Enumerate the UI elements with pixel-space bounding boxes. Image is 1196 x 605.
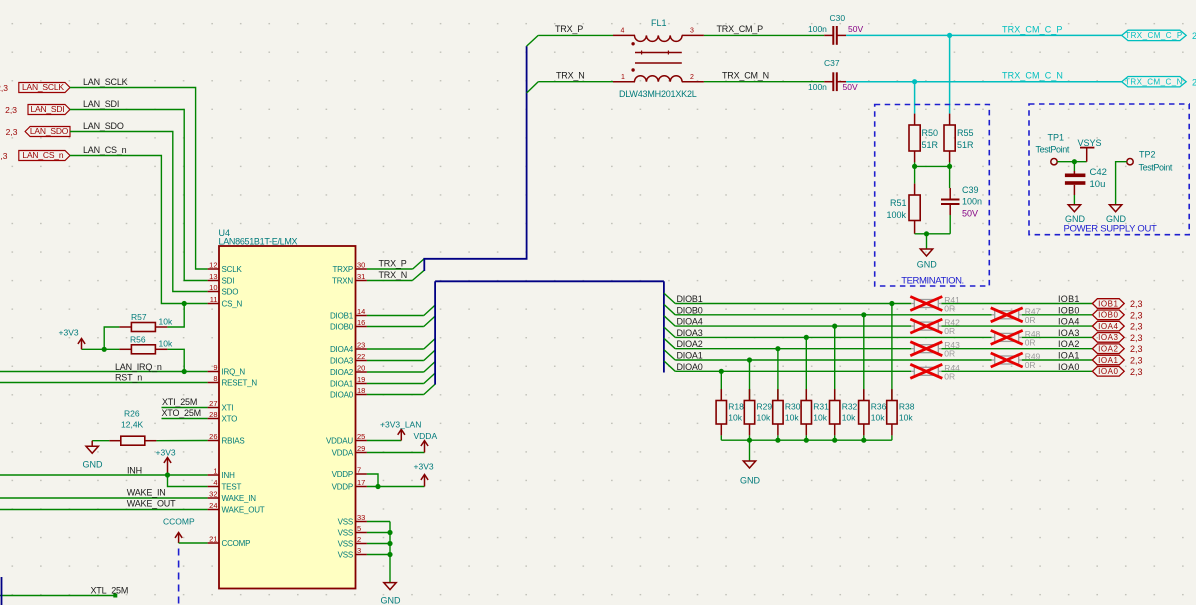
svg-text:CCOMP: CCOMP: [163, 517, 195, 527]
svg-text:TP2: TP2: [1139, 150, 1156, 160]
svg-text:DIOA3: DIOA3: [677, 328, 703, 338]
svg-text:28: 28: [209, 410, 217, 419]
svg-text:2,3: 2,3: [0, 151, 8, 161]
svg-text:+3V3_LAN: +3V3_LAN: [380, 420, 421, 430]
svg-text:WAKE_OUT: WAKE_OUT: [127, 498, 176, 508]
svg-text:TRX_N: TRX_N: [379, 270, 408, 280]
svg-text:GND: GND: [381, 596, 402, 605]
svg-text:XTO_25M: XTO_25M: [162, 408, 201, 418]
svg-text:2: 2: [690, 74, 694, 81]
svg-text:51R: 51R: [922, 140, 939, 150]
svg-text:VDDP: VDDP: [332, 483, 353, 492]
svg-text:WAKE_IN: WAKE_IN: [127, 487, 166, 497]
svg-text:DLW43MH201XK2L: DLW43MH201XK2L: [619, 89, 697, 99]
svg-text:2,3: 2,3: [1130, 333, 1143, 343]
svg-text:0R: 0R: [944, 371, 955, 381]
svg-text:TRXP: TRXP: [332, 265, 353, 274]
svg-text:10k: 10k: [785, 413, 799, 423]
svg-text:11: 11: [210, 295, 218, 304]
svg-text:VSYS: VSYS: [1078, 138, 1102, 148]
svg-text:TRXN: TRXN: [332, 277, 353, 286]
svg-text:DIOA1: DIOA1: [677, 351, 703, 361]
svg-text:TERMINATION.: TERMINATION.: [901, 276, 964, 287]
svg-text:TestPoint: TestPoint: [1036, 145, 1070, 155]
svg-text:IRQ_N: IRQ_N: [222, 368, 246, 377]
svg-text:10k: 10k: [757, 413, 771, 423]
svg-text:IOA4: IOA4: [1058, 317, 1080, 327]
svg-text:DIOB0: DIOB0: [330, 323, 354, 332]
svg-text:3: 3: [690, 28, 694, 35]
svg-text:VSS: VSS: [338, 551, 353, 560]
svg-text:INH: INH: [222, 471, 236, 480]
svg-text:IOA2: IOA2: [1058, 339, 1080, 349]
svg-text:9: 9: [213, 363, 217, 372]
svg-text:DIOB1: DIOB1: [677, 294, 703, 304]
svg-text:0R: 0R: [944, 304, 955, 314]
svg-text:RBIAS: RBIAS: [222, 437, 245, 446]
svg-text:TP1: TP1: [1048, 133, 1065, 143]
svg-text:51R: 51R: [957, 140, 974, 150]
svg-text:GND: GND: [1065, 214, 1086, 224]
svg-text:IOA4: IOA4: [1098, 322, 1118, 331]
svg-text:1: 1: [621, 74, 625, 81]
svg-text:IOB0: IOB0: [1058, 305, 1080, 315]
svg-text:10k: 10k: [842, 413, 856, 423]
svg-text:25: 25: [357, 432, 365, 441]
svg-text:100n: 100n: [808, 82, 827, 92]
svg-text:IOA1: IOA1: [1058, 351, 1080, 361]
svg-text:24: 24: [209, 501, 217, 510]
svg-text:100n: 100n: [962, 197, 982, 207]
svg-text:30: 30: [357, 261, 365, 270]
svg-text:27: 27: [209, 399, 217, 408]
svg-text:IOA0: IOA0: [1058, 362, 1080, 372]
svg-text:50V: 50V: [962, 209, 978, 219]
svg-text:18: 18: [357, 386, 365, 395]
svg-text:GND: GND: [740, 476, 761, 486]
svg-text:R38: R38: [899, 402, 915, 412]
svg-text:C37: C37: [824, 58, 840, 68]
svg-text:DIOA2: DIOA2: [330, 368, 354, 377]
svg-text:IOB0: IOB0: [1098, 311, 1118, 320]
svg-text:10k: 10k: [871, 413, 885, 423]
svg-text:R56: R56: [130, 335, 146, 345]
svg-text:31: 31: [357, 272, 365, 281]
svg-text:INH: INH: [127, 466, 142, 476]
svg-text:R50: R50: [922, 128, 939, 138]
svg-text:IOB1: IOB1: [1098, 299, 1118, 308]
svg-text:4: 4: [621, 28, 625, 35]
svg-text:CS_N: CS_N: [222, 300, 243, 309]
svg-text:29: 29: [357, 444, 365, 453]
svg-text:R30: R30: [785, 402, 801, 412]
svg-text:GND: GND: [1106, 214, 1127, 224]
svg-text:GND: GND: [83, 459, 104, 469]
svg-text:2: 2: [357, 535, 361, 544]
svg-text:TRX_CM_P: TRX_CM_P: [717, 24, 764, 34]
svg-text:C39: C39: [962, 185, 979, 195]
svg-text:R29: R29: [757, 402, 773, 412]
svg-text:XTL_25M: XTL_25M: [91, 586, 129, 596]
svg-text:DIOA1: DIOA1: [330, 380, 354, 389]
svg-text:26: 26: [209, 432, 217, 441]
svg-text:DIOA0: DIOA0: [330, 391, 354, 400]
svg-text:10k: 10k: [159, 339, 173, 349]
svg-text:TRX_CM_C_N: TRX_CM_C_N: [1125, 78, 1183, 87]
svg-text:+3V3: +3V3: [156, 448, 176, 458]
svg-text:0R: 0R: [944, 326, 955, 336]
svg-text:LAN_SDI: LAN_SDI: [30, 104, 64, 114]
svg-text:R57: R57: [131, 312, 147, 322]
svg-text:0R: 0R: [944, 349, 955, 359]
svg-text:GND: GND: [917, 260, 938, 270]
svg-text:LAN_SDO: LAN_SDO: [30, 126, 69, 136]
svg-text:5: 5: [357, 524, 361, 533]
svg-text:1: 1: [213, 467, 217, 476]
svg-text:XTI_25M: XTI_25M: [162, 397, 197, 407]
svg-text:VDDA: VDDA: [332, 449, 354, 458]
svg-text:FL1: FL1: [651, 18, 667, 28]
svg-text:2,3: 2,3: [6, 127, 18, 137]
svg-text:2: 2: [1192, 31, 1196, 41]
svg-text:2,3: 2,3: [1130, 322, 1143, 332]
svg-text:TRX_CM_N: TRX_CM_N: [722, 70, 769, 80]
svg-text:R26: R26: [124, 409, 140, 419]
svg-text:C42: C42: [1090, 167, 1107, 178]
svg-text:R32: R32: [842, 402, 858, 412]
svg-text:LAN_IRQ_n: LAN_IRQ_n: [115, 362, 162, 372]
svg-text:IOA3: IOA3: [1098, 333, 1118, 342]
svg-text:R55: R55: [957, 128, 974, 138]
svg-text:R36: R36: [871, 402, 887, 412]
svg-text:XTI: XTI: [222, 404, 234, 413]
svg-text:50V: 50V: [848, 24, 863, 34]
svg-text:0R: 0R: [1025, 315, 1036, 325]
svg-text:LAN_CS_n: LAN_CS_n: [83, 145, 127, 155]
svg-text:DIOA4: DIOA4: [677, 317, 703, 327]
svg-text:XTO: XTO: [222, 415, 238, 424]
svg-text:R51: R51: [890, 198, 907, 208]
svg-text:33: 33: [357, 513, 365, 522]
svg-text:TRX_P: TRX_P: [555, 24, 583, 34]
svg-text:RESET_N: RESET_N: [222, 379, 258, 388]
svg-text:SCLK: SCLK: [222, 265, 243, 274]
svg-text:14: 14: [357, 307, 365, 316]
svg-text:2,3: 2,3: [5, 105, 17, 115]
svg-text:TRX_CM_C_P: TRX_CM_C_P: [1002, 24, 1063, 34]
svg-text:TRX_P: TRX_P: [379, 259, 407, 269]
svg-text:TRX_N: TRX_N: [556, 70, 585, 80]
svg-text:IOA2: IOA2: [1098, 345, 1118, 354]
svg-text:VDDP: VDDP: [332, 470, 353, 479]
svg-text:50V: 50V: [843, 82, 858, 92]
svg-text:0R: 0R: [1025, 337, 1036, 347]
svg-text:2,3: 2,3: [0, 83, 8, 93]
svg-text:DIOB1: DIOB1: [330, 312, 354, 321]
svg-text:CCOMP: CCOMP: [222, 539, 251, 548]
svg-text:DIOA0: DIOA0: [677, 362, 703, 372]
svg-text:LAN_SCLK: LAN_SCLK: [22, 82, 64, 92]
svg-text:12: 12: [209, 261, 217, 270]
svg-text:WAKE_OUT: WAKE_OUT: [222, 506, 265, 515]
svg-text:C30: C30: [830, 13, 846, 23]
svg-text:VSS: VSS: [338, 540, 353, 549]
svg-text:VDDA: VDDA: [414, 431, 438, 441]
svg-text:20: 20: [357, 364, 365, 373]
svg-text:10k: 10k: [899, 413, 913, 423]
svg-text:23: 23: [357, 341, 365, 350]
svg-text:LAN_SDO: LAN_SDO: [83, 121, 124, 131]
svg-text:22: 22: [357, 352, 365, 361]
svg-text:LAN_CS_n: LAN_CS_n: [22, 150, 63, 160]
svg-text:IOA0: IOA0: [1098, 367, 1118, 376]
svg-text:VSS: VSS: [338, 518, 353, 527]
svg-text:7: 7: [357, 466, 361, 475]
svg-text:8: 8: [213, 374, 217, 383]
svg-text:10u: 10u: [1090, 179, 1106, 190]
svg-text:TestPoint: TestPoint: [1139, 163, 1173, 173]
svg-text:DIOA3: DIOA3: [330, 357, 354, 366]
svg-text:10k: 10k: [728, 413, 742, 423]
svg-text:4: 4: [213, 478, 217, 487]
svg-text:TRX_CM_C_N: TRX_CM_C_N: [1002, 71, 1063, 81]
svg-text:13: 13: [209, 272, 217, 281]
svg-text:10: 10: [209, 283, 217, 292]
svg-text:12,4K: 12,4K: [121, 420, 144, 430]
svg-text:3: 3: [357, 546, 361, 555]
svg-text:17: 17: [357, 478, 365, 487]
svg-text:IOA3: IOA3: [1058, 328, 1080, 338]
svg-text:10k: 10k: [159, 317, 173, 327]
svg-text:100k: 100k: [887, 210, 907, 220]
svg-text:+3V3: +3V3: [59, 328, 79, 338]
svg-text:LAN8651B1T-E/LMX: LAN8651B1T-E/LMX: [219, 237, 298, 247]
svg-text:32: 32: [209, 490, 217, 499]
svg-text:RST_n: RST_n: [115, 373, 142, 383]
svg-text:2,3: 2,3: [1130, 367, 1143, 377]
svg-text:2,3: 2,3: [1130, 344, 1143, 354]
svg-text:19: 19: [357, 375, 365, 384]
svg-text:2,3: 2,3: [1130, 356, 1143, 366]
svg-text:VSS: VSS: [338, 529, 353, 538]
svg-text:IOA1: IOA1: [1098, 356, 1118, 365]
svg-text:16: 16: [357, 318, 365, 327]
svg-text:2,3: 2,3: [1130, 299, 1143, 309]
svg-text:WAKE_IN: WAKE_IN: [222, 494, 257, 503]
svg-text:10k: 10k: [813, 413, 827, 423]
svg-text:2: 2: [1192, 77, 1196, 87]
svg-text:DIOB0: DIOB0: [677, 305, 703, 315]
svg-text:SDI: SDI: [222, 277, 235, 286]
svg-text:0R: 0R: [1025, 360, 1036, 370]
svg-text:TRX_CM_C_P: TRX_CM_C_P: [1125, 31, 1182, 40]
svg-text:VDDAU: VDDAU: [326, 437, 353, 446]
svg-text:DIOA4: DIOA4: [330, 345, 354, 354]
svg-text:LAN_SDI: LAN_SDI: [83, 99, 119, 109]
svg-text:2,3: 2,3: [1130, 310, 1143, 320]
svg-text:DIOA2: DIOA2: [677, 339, 703, 349]
svg-text:LAN_SCLK: LAN_SCLK: [83, 77, 128, 87]
svg-text:+3V3: +3V3: [414, 462, 434, 472]
svg-text:21: 21: [209, 535, 217, 544]
svg-text:SDO: SDO: [222, 288, 239, 297]
svg-text:100n: 100n: [808, 24, 827, 34]
svg-text:TEST: TEST: [222, 483, 242, 492]
svg-text:R31: R31: [813, 402, 829, 412]
svg-text:IOB1: IOB1: [1058, 294, 1080, 304]
svg-text:R18: R18: [728, 402, 744, 412]
svg-text:POWER SUPPLY OUT: POWER SUPPLY OUT: [1063, 224, 1157, 235]
